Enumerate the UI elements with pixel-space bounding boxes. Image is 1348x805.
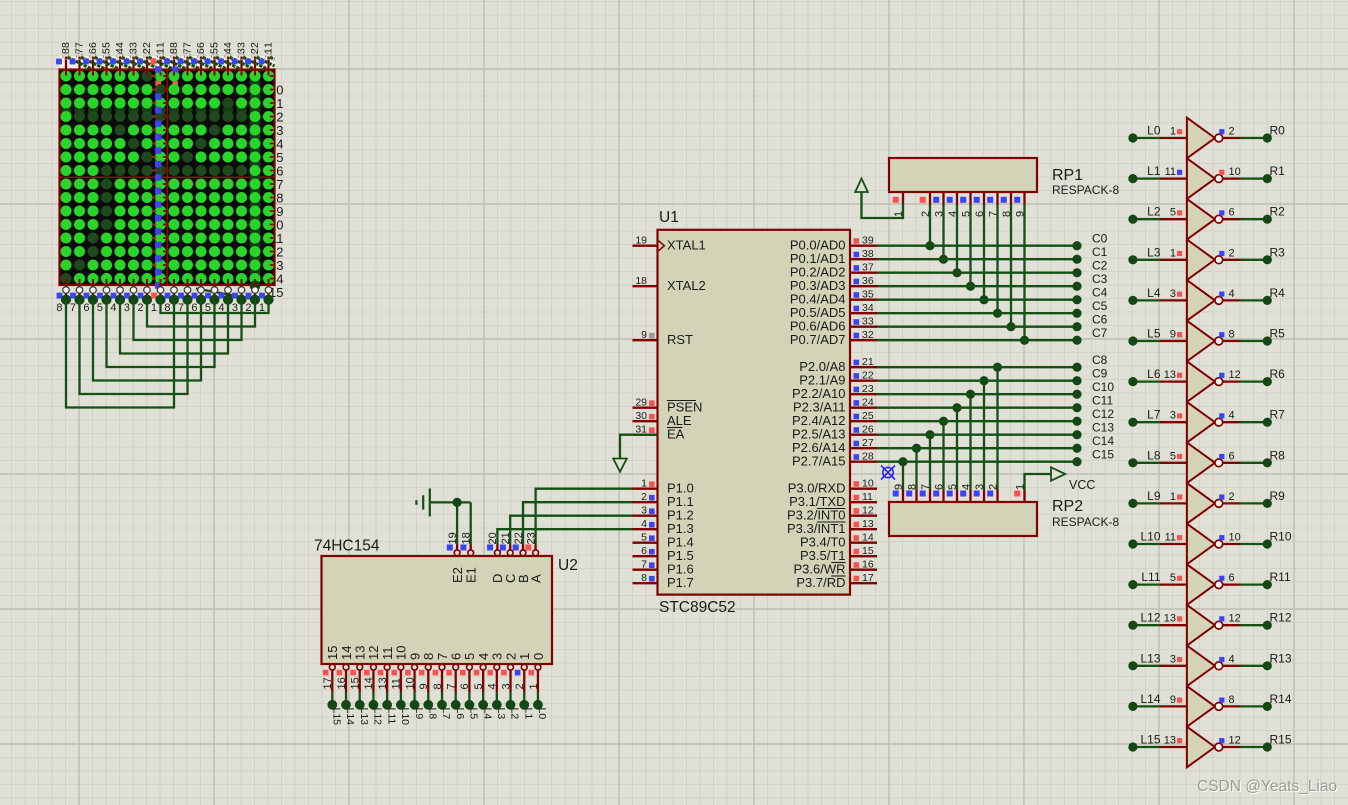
svg-text:37: 37 [862, 262, 874, 274]
svg-text:2: 2 [137, 302, 143, 314]
svg-text:26: 26 [862, 424, 874, 436]
svg-text:L10: L10 [399, 708, 411, 726]
svg-text:R11: R11 [1270, 570, 1291, 584]
svg-text:5: 5 [473, 683, 485, 689]
svg-text:R2: R2 [1270, 205, 1286, 219]
svg-text:21: 21 [862, 356, 874, 368]
svg-text:6: 6 [195, 42, 207, 48]
svg-text:10: 10 [1229, 532, 1241, 544]
svg-text:4: 4 [114, 42, 126, 48]
svg-text:3: 3 [1170, 288, 1176, 300]
svg-text:10: 10 [404, 677, 416, 689]
svg-text:6: 6 [1229, 572, 1235, 584]
svg-text:3: 3 [500, 683, 512, 689]
svg-text:6: 6 [87, 42, 99, 48]
svg-text:13: 13 [1164, 369, 1176, 381]
svg-text:12: 12 [1229, 369, 1241, 381]
svg-text:9: 9 [641, 329, 647, 341]
svg-text:33: 33 [862, 316, 874, 328]
svg-text:6: 6 [641, 545, 647, 557]
svg-text:L15: L15 [331, 708, 343, 726]
svg-text:5: 5 [1170, 572, 1176, 584]
svg-text:L1: L1 [1147, 164, 1161, 178]
svg-text:11: 11 [1165, 532, 1176, 544]
svg-text:13: 13 [1164, 613, 1176, 625]
svg-text:3: 3 [124, 302, 130, 314]
svg-text:R8: R8 [1270, 448, 1286, 462]
svg-text:C7: C7 [1092, 326, 1108, 340]
svg-text:4: 4 [1229, 653, 1235, 665]
svg-text:18: 18 [635, 275, 647, 287]
svg-text:13: 13 [377, 677, 389, 689]
svg-text:R0: R0 [1270, 124, 1286, 138]
svg-text:C0: C0 [1092, 232, 1108, 246]
svg-text:CSDN @Yeats_Liao: CSDN @Yeats_Liao [1197, 778, 1337, 795]
svg-text:P3.7/RD: P3.7/RD [796, 575, 845, 590]
svg-text:7: 7 [70, 302, 76, 314]
svg-text:2: 2 [249, 42, 261, 48]
svg-text:35: 35 [862, 289, 874, 301]
svg-text:RP2: RP2 [1052, 498, 1083, 515]
svg-text:L2: L2 [509, 708, 521, 720]
svg-text:P2.7/A15: P2.7/A15 [792, 454, 846, 469]
svg-text:L12: L12 [372, 708, 384, 726]
svg-text:E1: E1 [464, 567, 479, 583]
svg-text:27: 27 [862, 437, 874, 449]
svg-text:2: 2 [514, 683, 526, 689]
svg-text:17: 17 [322, 677, 334, 689]
svg-text:L6: L6 [1147, 367, 1161, 381]
svg-text:4: 4 [222, 42, 234, 48]
svg-text:3: 3 [128, 42, 140, 48]
svg-text:L4: L4 [481, 708, 493, 720]
svg-text:C3: C3 [1092, 272, 1108, 286]
svg-text:8: 8 [56, 302, 62, 314]
svg-text:XTAL2: XTAL2 [667, 278, 706, 293]
svg-text:5: 5 [641, 532, 647, 544]
svg-text:13: 13 [1164, 735, 1176, 747]
svg-text:11: 11 [862, 491, 873, 503]
svg-text:6: 6 [83, 302, 89, 314]
svg-text:L3: L3 [1147, 245, 1161, 259]
svg-text:17: 17 [862, 572, 874, 584]
svg-text:A: A [528, 574, 543, 583]
svg-text:L9: L9 [413, 708, 425, 720]
svg-text:12: 12 [1229, 735, 1241, 747]
svg-text:32: 32 [862, 329, 874, 341]
svg-text:8: 8 [60, 42, 72, 48]
svg-text:8: 8 [168, 42, 180, 48]
svg-text:RST: RST [667, 332, 693, 347]
svg-text:RESPACK-8: RESPACK-8 [1052, 183, 1119, 197]
svg-text:14: 14 [363, 677, 375, 689]
svg-text:C12: C12 [1092, 407, 1114, 421]
svg-text:5: 5 [101, 42, 113, 48]
svg-text:C4: C4 [1092, 286, 1108, 300]
svg-text:R4: R4 [1270, 286, 1286, 300]
svg-text:L5: L5 [468, 708, 480, 720]
svg-text:R14: R14 [1270, 692, 1292, 706]
svg-text:1: 1 [1170, 491, 1176, 503]
svg-text:XTAL1: XTAL1 [667, 238, 706, 253]
svg-text:30: 30 [635, 410, 647, 422]
svg-text:1: 1 [1170, 247, 1176, 259]
svg-text:5: 5 [97, 302, 103, 314]
svg-text:R15: R15 [1270, 733, 1292, 747]
svg-text:74HC154: 74HC154 [314, 538, 380, 555]
svg-text:R13: R13 [1270, 651, 1292, 665]
svg-text:10: 10 [1229, 166, 1241, 178]
svg-text:4: 4 [1229, 410, 1235, 422]
svg-text:L7: L7 [1147, 408, 1161, 422]
svg-text:8: 8 [641, 572, 647, 584]
svg-text:7: 7 [641, 559, 647, 571]
svg-text:L11: L11 [385, 708, 397, 725]
svg-text:C10: C10 [1092, 380, 1114, 394]
svg-text:R7: R7 [1270, 408, 1286, 422]
svg-text:C9: C9 [1092, 367, 1108, 381]
svg-text:7: 7 [445, 683, 457, 689]
svg-text:R9: R9 [1270, 489, 1286, 503]
svg-text:3: 3 [1170, 410, 1176, 422]
svg-text:C15: C15 [1092, 448, 1114, 462]
svg-text:1: 1 [151, 302, 157, 314]
svg-text:29: 29 [635, 397, 647, 409]
svg-text:9: 9 [418, 683, 430, 689]
svg-text:1: 1 [528, 683, 540, 689]
svg-text:R6: R6 [1270, 367, 1286, 381]
svg-text:R10: R10 [1270, 530, 1292, 544]
svg-text:0: 0 [531, 653, 546, 660]
svg-text:4: 4 [1229, 288, 1235, 300]
svg-text:U1: U1 [659, 209, 679, 226]
svg-text:C5: C5 [1092, 299, 1108, 313]
svg-text:12: 12 [1229, 613, 1241, 625]
svg-text:7: 7 [74, 42, 86, 48]
svg-text:2: 2 [1229, 491, 1235, 503]
svg-text:39: 39 [862, 235, 874, 247]
svg-text:L1: L1 [522, 708, 534, 720]
svg-text:6: 6 [1229, 450, 1235, 462]
svg-text:C8: C8 [1092, 353, 1108, 367]
svg-text:4: 4 [641, 518, 647, 530]
svg-text:19: 19 [635, 235, 647, 247]
svg-text:L3: L3 [495, 708, 507, 720]
svg-text:L2: L2 [1147, 205, 1161, 219]
svg-text:P0.7/AD7: P0.7/AD7 [790, 332, 846, 347]
svg-text:4: 4 [110, 302, 116, 314]
svg-text:12: 12 [862, 505, 874, 517]
svg-text:11: 11 [1165, 166, 1176, 178]
svg-text:6: 6 [459, 683, 471, 689]
svg-text:1: 1 [263, 42, 275, 48]
svg-text:8: 8 [1229, 329, 1235, 341]
svg-text:2: 2 [641, 491, 647, 503]
svg-text:11: 11 [391, 678, 403, 689]
svg-text:16: 16 [862, 559, 874, 571]
svg-text:24: 24 [862, 397, 874, 409]
svg-text:2: 2 [1229, 247, 1235, 259]
svg-text:C13: C13 [1092, 421, 1114, 435]
svg-text:2: 2 [1229, 126, 1235, 138]
svg-text:28: 28 [862, 451, 874, 463]
svg-text:34: 34 [862, 302, 874, 314]
svg-text:8: 8 [432, 683, 444, 689]
svg-text:23: 23 [862, 383, 874, 395]
svg-text:L7: L7 [440, 708, 452, 720]
svg-text:EA: EA [667, 427, 685, 442]
svg-text:9: 9 [1170, 329, 1176, 341]
svg-text:STC89C52: STC89C52 [659, 599, 736, 616]
svg-text:L4: L4 [1147, 286, 1161, 300]
svg-text:C14: C14 [1092, 434, 1114, 448]
svg-text:L5: L5 [1147, 327, 1161, 341]
svg-text:L0: L0 [536, 708, 548, 720]
svg-text:L0: L0 [1147, 124, 1161, 138]
svg-text:L9: L9 [1147, 489, 1161, 503]
svg-text:15: 15 [862, 545, 874, 557]
svg-text:4: 4 [487, 683, 499, 689]
svg-text:13: 13 [862, 518, 874, 530]
svg-text:L14: L14 [344, 708, 356, 726]
svg-text:L8: L8 [1147, 448, 1161, 462]
svg-text:15: 15 [350, 677, 362, 689]
svg-text:L13: L13 [358, 708, 370, 726]
svg-text:3: 3 [236, 42, 248, 48]
svg-text:5: 5 [1170, 207, 1176, 219]
svg-text:L8: L8 [426, 708, 438, 720]
svg-text:1: 1 [155, 42, 167, 48]
svg-text:P1.7: P1.7 [667, 575, 694, 590]
svg-text:C6: C6 [1092, 313, 1108, 327]
svg-text:16: 16 [336, 677, 348, 689]
svg-text:2: 2 [141, 42, 153, 48]
svg-text:C1: C1 [1092, 245, 1108, 259]
svg-text:1: 1 [1170, 126, 1176, 138]
svg-text:VCC: VCC [1069, 478, 1095, 492]
svg-text:25: 25 [862, 410, 874, 422]
svg-text:1: 1 [641, 478, 647, 490]
svg-text:14: 14 [862, 532, 874, 544]
svg-text:9: 9 [1170, 694, 1176, 706]
svg-text:L6: L6 [454, 708, 466, 720]
svg-text:U2: U2 [558, 557, 578, 574]
svg-text:6: 6 [1229, 207, 1235, 219]
svg-text:8: 8 [1229, 694, 1235, 706]
svg-text:38: 38 [862, 248, 874, 260]
svg-text:10: 10 [862, 478, 874, 490]
svg-text:C11: C11 [1092, 394, 1113, 408]
svg-text:RP1: RP1 [1052, 167, 1083, 184]
svg-text:R5: R5 [1270, 327, 1286, 341]
svg-text:L13: L13 [1140, 651, 1160, 665]
svg-text:L12: L12 [1140, 611, 1160, 625]
svg-text:L15: L15 [1140, 733, 1160, 747]
svg-text:R1: R1 [1270, 164, 1286, 178]
svg-text:L14: L14 [1140, 692, 1160, 706]
svg-text:22: 22 [862, 370, 874, 382]
svg-text:36: 36 [862, 275, 874, 287]
svg-text:L11: L11 [1141, 570, 1160, 584]
svg-text:RESPACK-8: RESPACK-8 [1052, 515, 1119, 529]
svg-text:3: 3 [1170, 653, 1176, 665]
svg-text:R12: R12 [1270, 611, 1292, 625]
svg-text:3: 3 [641, 505, 647, 517]
svg-text:R3: R3 [1270, 245, 1286, 259]
svg-text:7: 7 [182, 42, 194, 48]
svg-text:C2: C2 [1092, 259, 1108, 273]
svg-text:5: 5 [209, 42, 221, 48]
svg-text:L10: L10 [1140, 530, 1160, 544]
svg-text:5: 5 [1170, 450, 1176, 462]
